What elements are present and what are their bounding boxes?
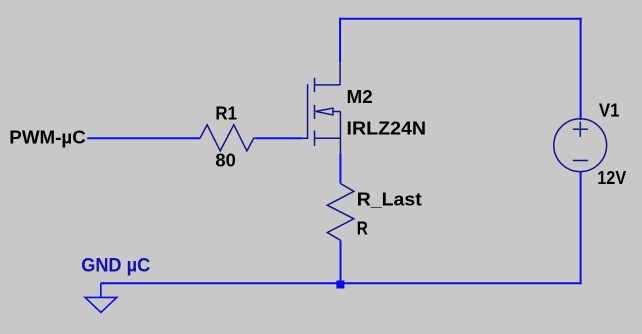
svg-text:IRLZ24N: IRLZ24N xyxy=(347,119,427,139)
svg-text:PWM-µC: PWM-µC xyxy=(9,127,86,147)
wire: right rail lower xyxy=(580,171,582,284)
resistor R1 xyxy=(200,125,256,151)
svg-text:M2: M2 xyxy=(347,87,373,107)
voltage source V1 xyxy=(554,119,607,172)
svg-text:80: 80 xyxy=(215,151,235,171)
wire: right rail upper xyxy=(580,18,582,120)
junction node xyxy=(336,281,344,289)
svg-text:R_Last: R_Last xyxy=(357,190,422,210)
wire: PWM net to R1 xyxy=(87,137,200,139)
transistor M2 xyxy=(302,62,340,154)
resistor R_Last xyxy=(327,184,354,241)
svg-text:V1: V1 xyxy=(599,100,620,120)
svg-text:12V: 12V xyxy=(597,168,626,188)
svg-text:R1: R1 xyxy=(215,103,237,123)
wire: R_Last to bottom rail xyxy=(340,240,342,283)
svg-text:R: R xyxy=(357,219,368,239)
wire: MOSFET source to R_Last xyxy=(339,154,341,184)
wire: R1 to gate xyxy=(256,137,302,139)
wire: bottom rail xyxy=(101,282,582,284)
svg-text:GND µC: GND µC xyxy=(81,255,150,276)
wire: top rail xyxy=(339,18,581,20)
wire: drain to top rail xyxy=(339,18,341,62)
ground xyxy=(85,283,117,312)
